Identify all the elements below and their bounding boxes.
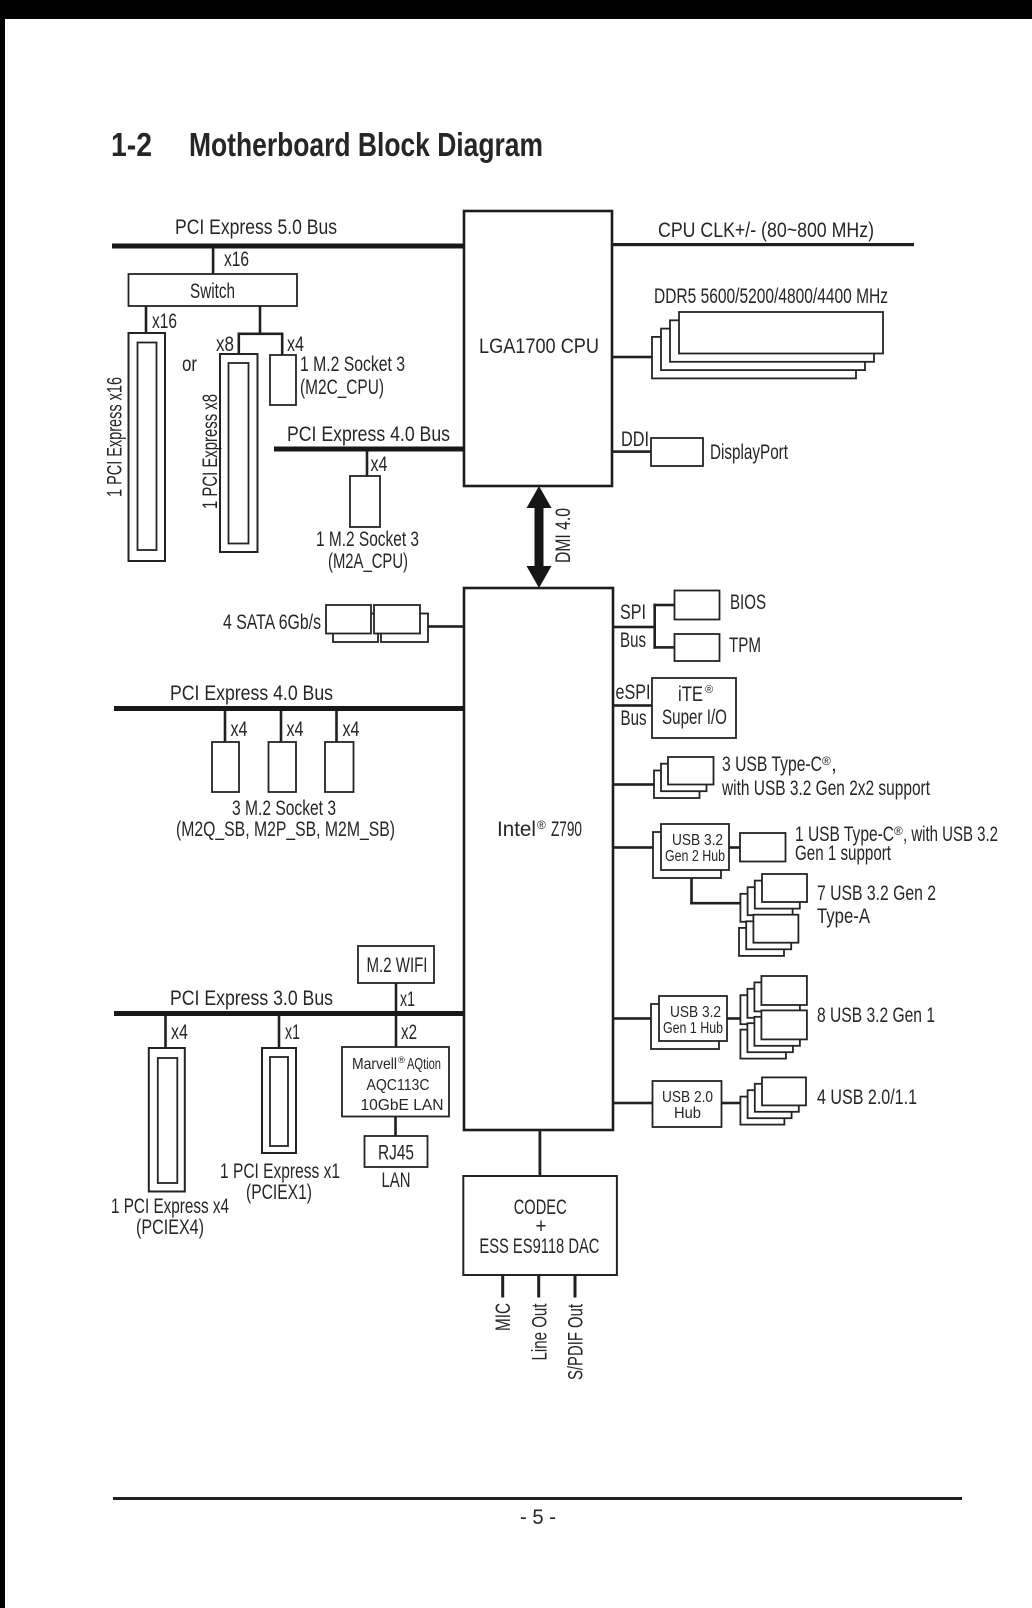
svg-text:LGA1700 CPU: LGA1700 CPU <box>479 335 599 358</box>
svg-text:®: ® <box>822 754 831 768</box>
svg-text:3 USB Type-C: 3 USB Type-C <box>722 753 822 776</box>
svg-text:®: ® <box>705 684 713 696</box>
wire switch to PCIEX16 <box>145 306 148 333</box>
switch box <box>129 274 298 306</box>
svg-text:x4: x4 <box>231 718 248 741</box>
svg-text:4 USB 2.0/1.1: 4 USB 2.0/1.1 <box>817 1086 917 1109</box>
svg-text:CPU CLK+/- (80~800 MHz): CPU CLK+/- (80~800 MHz) <box>658 219 874 242</box>
PCIEX1 slot inner <box>270 1057 288 1146</box>
svg-text:PCI Express 5.0 Bus: PCI Express 5.0 Bus <box>175 216 337 239</box>
wire PCIe 4.0 bus upper <box>274 447 464 452</box>
svg-text:USB 3.2: USB 3.2 <box>670 1004 721 1021</box>
svg-text:®: ® <box>398 1055 405 1066</box>
svg-text:1 PCI Express x4: 1 PCI Express x4 <box>111 1195 229 1218</box>
svg-text:, with USB 3.2: , with USB 3.2 <box>903 823 998 846</box>
PCIEX4 slot inner <box>158 1058 178 1183</box>
USB 3.2 Gen 2 Hub box with shadow <box>653 824 729 878</box>
USB 2.0 Hub box <box>653 1081 722 1127</box>
wire chipset to iTE <box>613 704 652 707</box>
svg-text:or: or <box>182 353 197 376</box>
svg-text:®: ® <box>894 824 903 838</box>
wire bus to LAN <box>395 1016 398 1047</box>
wire chipset to Gen1 hub <box>613 1017 651 1020</box>
svg-text:Switch: Switch <box>190 280 235 303</box>
svg-text:S/PDIF Out: S/PDIF Out <box>565 1304 588 1380</box>
wire bus to M2M <box>335 711 338 742</box>
svg-text:AQtion: AQtion <box>407 1056 441 1073</box>
PCIEX1 slot outer <box>262 1048 296 1153</box>
svg-text:PCI Express 4.0 Bus: PCI Express 4.0 Bus <box>287 423 450 446</box>
svg-text:Type-A: Type-A <box>817 905 870 928</box>
PCIEX4 slot outer <box>149 1048 185 1192</box>
svg-text:RJ45: RJ45 <box>378 1142 414 1165</box>
svg-text:1 PCI Express x1: 1 PCI Express x1 <box>220 1160 340 1183</box>
wire to x8 slot <box>238 333 241 355</box>
svg-text:(M2A_CPU): (M2A_CPU) <box>328 550 408 573</box>
svg-text:(PCIEX4): (PCIEX4) <box>136 1216 204 1239</box>
USB 3.2 Gen1 stack upper x4 <box>740 976 807 1024</box>
svg-text:Z790: Z790 <box>551 818 582 841</box>
USB Type-C stack x3 <box>654 757 714 798</box>
footer rule <box>113 1497 962 1500</box>
page top black bar <box>0 0 1032 19</box>
svg-text:iTE: iTE <box>678 683 703 706</box>
svg-text:TPM: TPM <box>729 634 761 657</box>
M2Q_SB box <box>212 742 239 792</box>
wire bus to PCIEX1 <box>278 1016 281 1048</box>
svg-text:7 USB 3.2 Gen 2: 7 USB 3.2 Gen 2 <box>817 882 936 905</box>
wire Gen1 hub to 8 USB stack <box>727 1017 740 1020</box>
wire to M2C <box>281 333 284 356</box>
wire CPU to DIMM <box>612 356 652 359</box>
wire branch split horizontal <box>238 333 284 336</box>
svg-text:,: , <box>831 753 837 776</box>
svg-text:(PCIEX1): (PCIEX1) <box>246 1181 312 1204</box>
wire bus to switch <box>212 248 215 274</box>
svg-text:4 SATA 6Gb/s: 4 SATA 6Gb/s <box>223 611 321 634</box>
svg-text:SPI: SPI <box>620 601 646 624</box>
wire SATA to chipset <box>428 625 464 628</box>
USB 2.0 stack x4 <box>740 1077 806 1124</box>
DisplayPort box <box>651 438 703 466</box>
wire CODEC to MIC <box>501 1275 504 1298</box>
svg-text:1-2: 1-2 <box>111 126 152 163</box>
RJ45 box <box>365 1136 428 1167</box>
svg-text:Bus: Bus <box>620 629 646 652</box>
M2A_CPU box <box>350 476 380 527</box>
wire PCIe 3.0 bus <box>114 1011 464 1016</box>
M2M_SB box <box>325 742 354 792</box>
svg-text:BIOS: BIOS <box>730 591 766 614</box>
svg-text:x4: x4 <box>287 718 304 741</box>
svg-text:with USB 3.2 Gen 2x2 support: with USB 3.2 Gen 2x2 support <box>721 777 930 800</box>
svg-text:8 USB 3.2 Gen 1: 8 USB 3.2 Gen 1 <box>817 1004 935 1027</box>
svg-text:10GbE LAN: 10GbE LAN <box>361 1097 444 1114</box>
svg-text:USB 2.0: USB 2.0 <box>662 1089 713 1106</box>
PCIEX16 slot inner <box>138 343 157 551</box>
USB 3.2 Gen2 Type-A stack lower x3 <box>739 915 798 956</box>
svg-text:DisplayPort: DisplayPort <box>710 441 788 464</box>
CPU box U1 LGA1700 <box>464 211 612 486</box>
svg-text:x1: x1 <box>285 1021 300 1044</box>
wire chipset to Type-C stack <box>613 783 654 786</box>
svg-text:®: ® <box>537 818 546 832</box>
svg-text:PCI Express 4.0 Bus: PCI Express 4.0 Bus <box>170 682 333 705</box>
wire Marvell to RJ45 <box>394 1117 397 1137</box>
chipset box U2 Intel Z790 <box>464 588 613 1130</box>
svg-text:eSPI: eSPI <box>616 681 651 704</box>
svg-text:DDI: DDI <box>621 428 649 451</box>
section title 1-2 Motherboard Block Diagram <box>111 126 543 163</box>
svg-text:Gen 2 Hub: Gen 2 Hub <box>665 848 725 865</box>
wire chipset to CODEC <box>539 1130 542 1176</box>
svg-text:DMI 4.0: DMI 4.0 <box>552 508 575 563</box>
svg-text:AQC113C: AQC113C <box>367 1077 430 1094</box>
svg-text:DDR5 5600/5200/4800/4400 MHz: DDR5 5600/5200/4800/4400 MHz <box>654 285 888 308</box>
wire CODEC to SPDIF Out <box>574 1275 577 1298</box>
svg-text:1 PCI Express x8: 1 PCI Express x8 <box>199 394 222 509</box>
svg-text:1 M.2 Socket 3: 1 M.2 Socket 3 <box>300 353 405 376</box>
svg-text:Gen 1 support: Gen 1 support <box>795 842 891 865</box>
svg-text:PCI Express 3.0 Bus: PCI Express 3.0 Bus <box>170 987 333 1010</box>
svg-text:- 5 -: - 5 - <box>520 1506 556 1529</box>
svg-text:USB 3.2: USB 3.2 <box>672 832 723 849</box>
svg-text:x4: x4 <box>343 718 360 741</box>
BIOS box <box>675 591 720 620</box>
SATA connectors <box>326 605 428 642</box>
svg-text:LAN: LAN <box>382 1169 411 1192</box>
svg-text:3 M.2 Socket 3: 3 M.2 Socket 3 <box>232 797 336 820</box>
svg-text:1 M.2 Socket 3: 1 M.2 Socket 3 <box>316 528 419 551</box>
svg-text:Motherboard Block Diagram: Motherboard Block Diagram <box>189 126 543 163</box>
wire SPI bracket vertical <box>653 604 656 649</box>
wire bus to PCIEX4 <box>164 1016 167 1048</box>
svg-text:Intel: Intel <box>497 818 536 841</box>
wire Gen2 hub down <box>690 878 693 905</box>
svg-text:x2: x2 <box>401 1021 417 1044</box>
wire bus to M2Q <box>224 711 227 742</box>
svg-text:(M2C_CPU): (M2C_CPU) <box>300 376 384 399</box>
svg-text:x4: x4 <box>171 1021 188 1044</box>
svg-text:Line Out: Line Out <box>529 1303 552 1360</box>
wire WIFI to bus <box>395 983 398 1011</box>
wire Gen2 hub to Type-C port <box>729 846 740 849</box>
svg-text:Marvell: Marvell <box>352 1056 397 1073</box>
svg-text:x4: x4 <box>371 453 388 476</box>
wire CPU to DisplayPort <box>612 450 651 453</box>
DMI arrow <box>527 486 552 588</box>
svg-text:x8: x8 <box>216 333 234 356</box>
iTE Super I/O box <box>652 678 736 738</box>
wire PCIe 5.0 bus <box>112 244 464 249</box>
wire PCIe 4.0 bus lower <box>114 706 464 711</box>
USB Type-C Gen1 port box <box>740 833 786 862</box>
svg-text:Bus: Bus <box>621 707 647 730</box>
wire chipset to SPI bracket <box>613 626 656 629</box>
svg-text:1 PCI Express x16: 1 PCI Express x16 <box>104 377 127 497</box>
wire CODEC to Line Out <box>537 1275 540 1298</box>
wire switch right branch <box>259 306 262 334</box>
wire bus to M2A <box>366 451 369 476</box>
svg-text:x1: x1 <box>400 988 415 1011</box>
wire USB2 hub to 4 USB stack <box>722 1102 741 1105</box>
USB 3.2 Gen2 Type-A stack upper x4 <box>740 874 807 922</box>
wire chipset to Gen2 hub <box>613 846 653 849</box>
M2C_CPU box <box>270 355 296 405</box>
PCIEX16 slot outer <box>129 333 166 561</box>
M2P_SB box <box>269 742 297 792</box>
USB 3.2 Gen 1 Hub box with shadow <box>651 996 727 1049</box>
svg-text:Gen 1 Hub: Gen 1 Hub <box>663 1020 723 1037</box>
svg-text:x16: x16 <box>224 248 249 271</box>
wire bracket to TPM <box>653 646 675 649</box>
CODEC box <box>463 1176 617 1275</box>
Marvell AQtion LAN box <box>342 1047 449 1117</box>
wire CPU CLK <box>612 243 914 246</box>
wire to 7 USB stack <box>690 902 740 905</box>
svg-text:ESS ES9118 DAC: ESS ES9118 DAC <box>479 1235 599 1258</box>
page left black bar <box>0 0 5 1608</box>
wire bracket to BIOS <box>653 604 675 607</box>
TPM box <box>675 634 720 661</box>
PCIEX8 slot outer <box>220 354 258 552</box>
svg-text:(M2Q_SB, M2P_SB, M2M_SB): (M2Q_SB, M2P_SB, M2M_SB) <box>176 818 395 841</box>
svg-text:MIC: MIC <box>492 1303 515 1331</box>
svg-text:Hub: Hub <box>674 1105 701 1122</box>
svg-text:Super I/O: Super I/O <box>662 706 727 729</box>
DIMM stack <box>652 312 883 378</box>
USB 3.2 Gen1 stack lower x4 <box>740 1010 807 1058</box>
wire chipset to USB2 hub <box>613 1102 653 1105</box>
wire bus to M2P <box>280 711 283 742</box>
PCIEX8 slot inner <box>229 363 249 544</box>
svg-text:M.2 WIFI: M.2 WIFI <box>367 954 428 977</box>
svg-text:x16: x16 <box>152 310 177 333</box>
M.2 WIFI box <box>358 946 434 983</box>
